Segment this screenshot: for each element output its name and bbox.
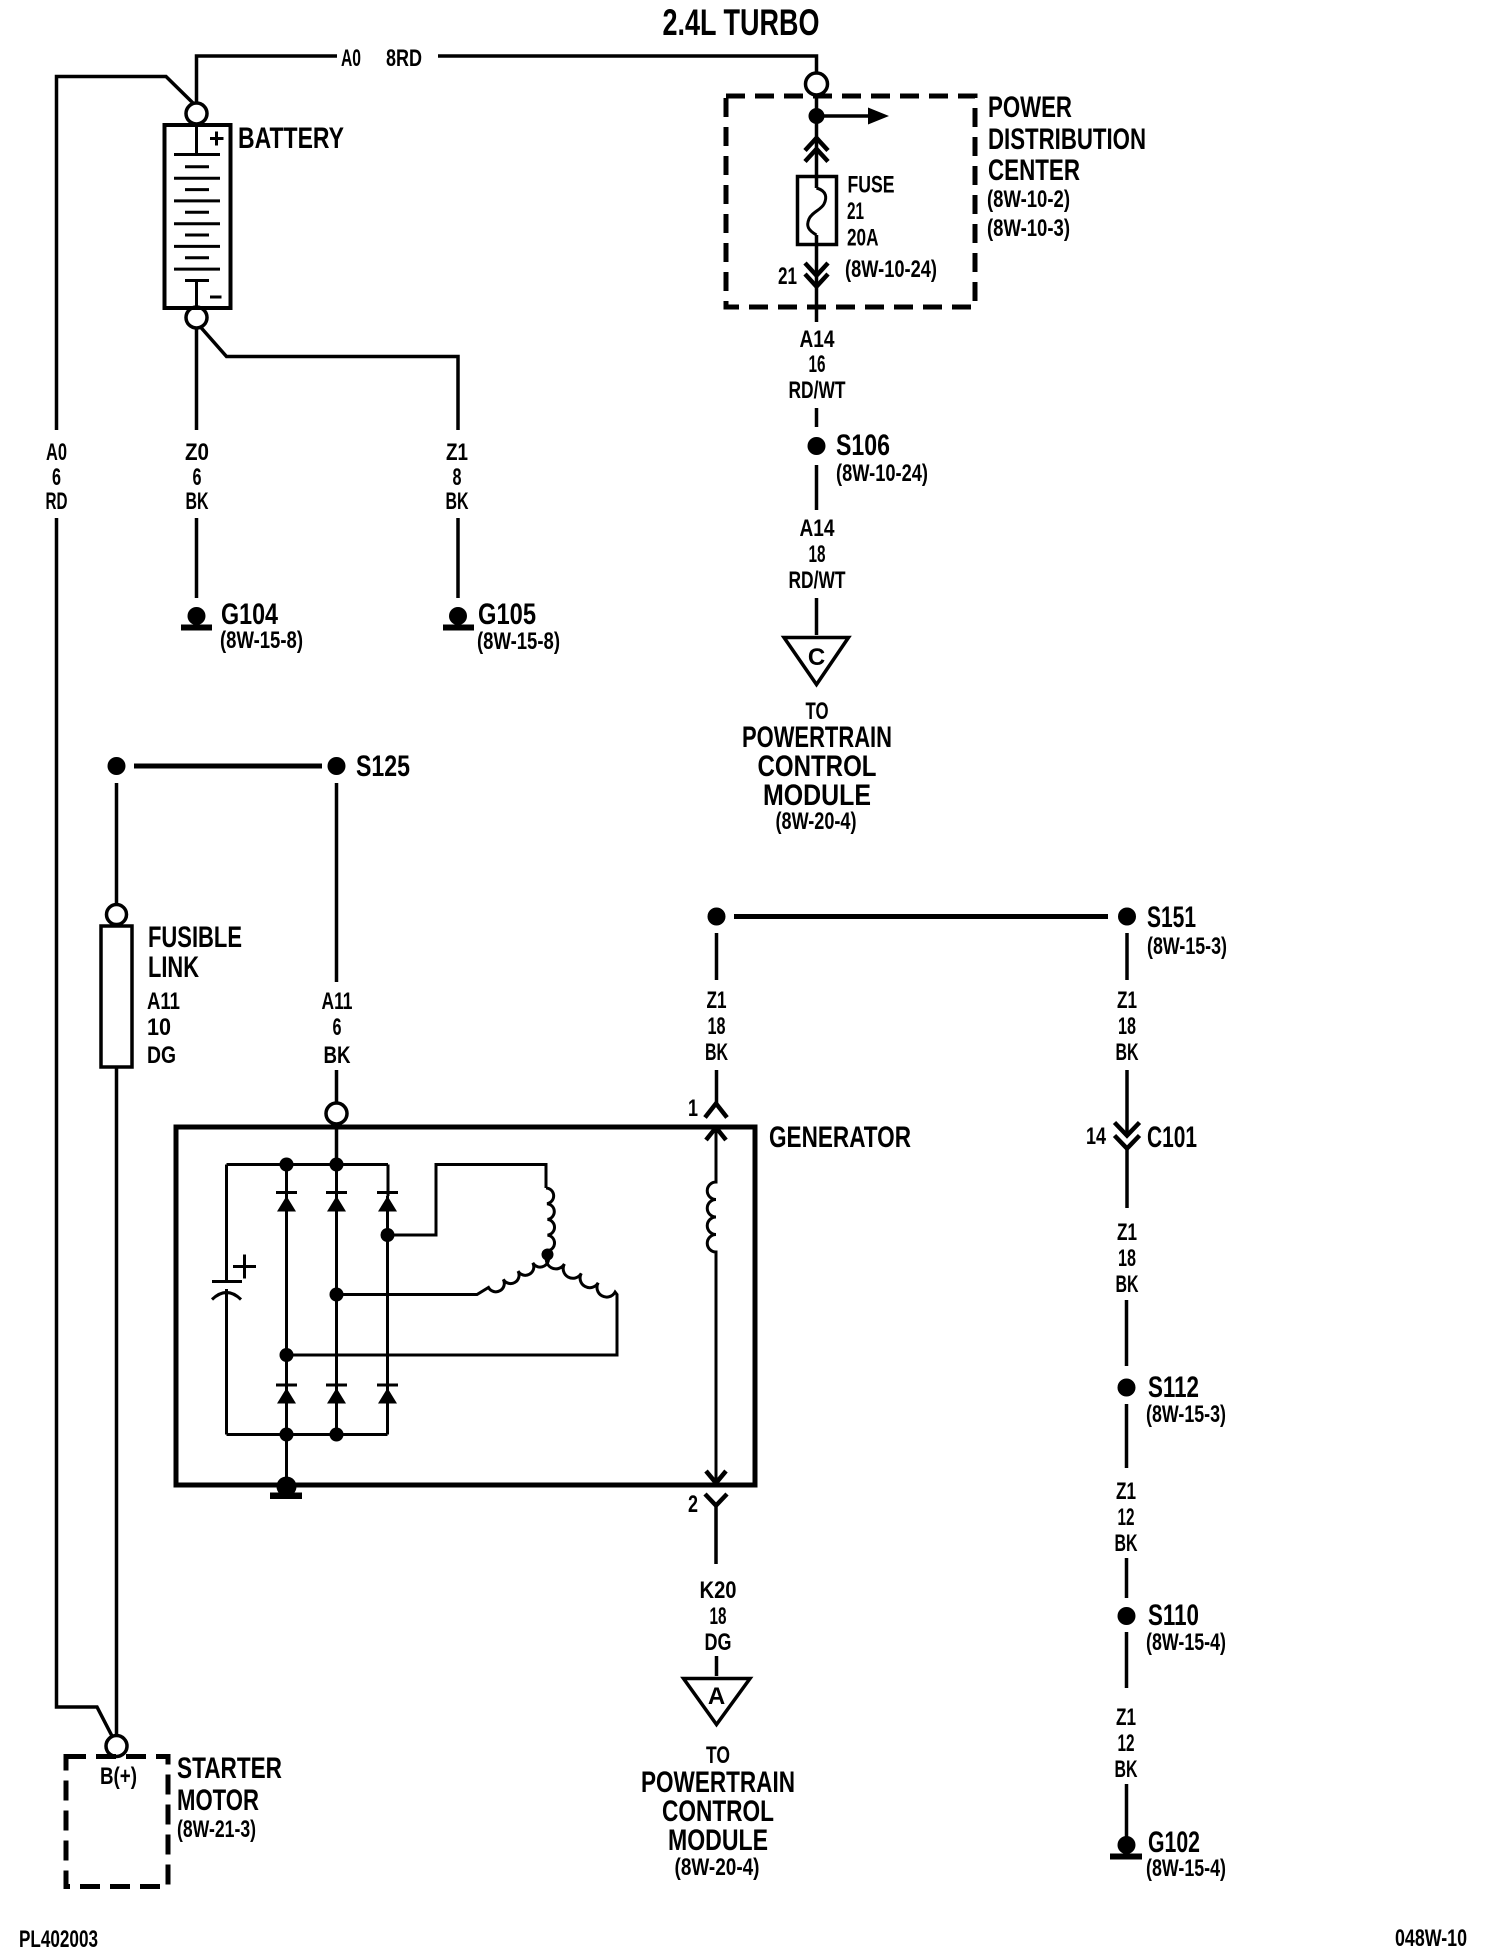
label A14 16 RD/WT (789, 326, 846, 404)
svg-text:048W-10: 048W-10 (1395, 1925, 1467, 1952)
svg-text:GENERATOR: GENERATOR (769, 1121, 911, 1154)
wire K20 18 DG (generator pin 2 to PCM) (714, 1506, 718, 1677)
svg-text:8RD: 8RD (386, 45, 422, 72)
svg-text:A0: A0 (341, 45, 361, 72)
svg-text:18: 18 (708, 1013, 726, 1040)
starter motor terminal B(+) (106, 1736, 127, 1757)
label POWER DISTRIBUTION CENTER (987, 91, 1146, 242)
splice S151 (1118, 901, 1227, 960)
svg-text:LINK: LINK (148, 951, 199, 984)
pin 21 label (778, 263, 797, 290)
diode 2 upper (326, 1165, 347, 1295)
svg-text:12: 12 (1118, 1730, 1135, 1757)
connector chevrons pin 21 (PDC output) (805, 263, 828, 287)
svg-text:6: 6 (52, 464, 61, 491)
sheet number 048W-10 (1395, 1925, 1467, 1952)
svg-text:8: 8 (453, 464, 462, 491)
connector chevrons (fuse cavity top) (805, 138, 828, 162)
svg-text:(8W-20-4): (8W-20-4) (675, 1854, 760, 1881)
junction dot bottom rail col1 (280, 1428, 294, 1442)
rotor field coil (707, 1128, 716, 1483)
svg-text:18: 18 (1118, 1245, 1136, 1272)
label TO POWERTRAIN CONTROL MODULE (top) (742, 698, 892, 835)
svg-text:6: 6 (193, 464, 202, 491)
label A11 6 BK (322, 988, 353, 1069)
stator winding phase B (down-left coil) (337, 1255, 549, 1295)
stator winding phase C (down-right coil) (287, 1255, 618, 1356)
sheet number PL402003 (19, 1926, 98, 1953)
svg-text:2.4L TURBO: 2.4L TURBO (663, 2, 820, 43)
svg-text:DG: DG (705, 1629, 732, 1656)
label STARTER MOTOR (177, 1752, 282, 1843)
svg-text:14: 14 (1086, 1123, 1106, 1150)
connector C101 pin 14 (1086, 1121, 1197, 1154)
generator case ground (270, 1477, 302, 1500)
label Z1 18 BK (right) (1116, 987, 1139, 1066)
svg-text:21: 21 (778, 263, 797, 290)
svg-text:10: 10 (147, 1014, 171, 1041)
label FUSIBLE LINK (148, 921, 242, 984)
svg-text:(8W-10-24): (8W-10-24) (845, 256, 937, 283)
wire Z1 18 BK (S151 to generator pin 1) (715, 933, 719, 1103)
title 2.4L TURBO (663, 2, 820, 43)
svg-text:(8W-21-3): (8W-21-3) (177, 1816, 256, 1843)
svg-text:BK: BK (324, 1042, 352, 1069)
svg-text:PL402003: PL402003 (19, 1926, 98, 1953)
svg-text:BK: BK (1116, 1271, 1139, 1298)
svg-text:(8W-15-3): (8W-15-3) (1146, 1401, 1226, 1428)
svg-text:2: 2 (688, 1491, 698, 1518)
svg-text:A0: A0 (46, 439, 67, 466)
splice S110 (1118, 1599, 1227, 1656)
wire diode3 to lower diode3 (386, 1235, 389, 1435)
svg-text:S151: S151 (1147, 901, 1196, 934)
splice S106 (808, 429, 929, 487)
wire to off-page connector C (815, 598, 819, 635)
junction dot stator phase A tap (381, 1228, 395, 1242)
junction dot bottom rail col2 (330, 1428, 344, 1442)
svg-text:A11: A11 (322, 988, 353, 1015)
junction dot S151 left (708, 908, 726, 926)
junction dot PDC (809, 108, 825, 124)
label TO POWERTRAIN CONTROL MODULE (bottom) (641, 1742, 795, 1881)
wire to generator case ground (285, 1435, 288, 1486)
splice S125 (328, 750, 411, 783)
svg-text:BATTERY: BATTERY (238, 122, 344, 155)
PDC input terminal (806, 73, 828, 95)
svg-text:(8W-15-8): (8W-15-8) (220, 627, 303, 654)
generator pin 2 arrow (inside box) (706, 1471, 726, 1483)
svg-text:Z1: Z1 (1117, 987, 1137, 1014)
battery positive terminal (186, 103, 207, 124)
svg-text:Z1: Z1 (446, 439, 468, 466)
svg-text:BK: BK (705, 1039, 728, 1066)
generator pin 1 arrow (inside box) (706, 1128, 726, 1141)
diode 3 upper (377, 1165, 398, 1236)
svg-text:STARTER: STARTER (177, 1752, 282, 1785)
wire A0 6 RD (left vertical from battery + terminal) (57, 77, 195, 1737)
svg-text:(8W-15-4): (8W-15-4) (1146, 1855, 1226, 1882)
label GENERATOR (769, 1121, 911, 1154)
junction dot phase B to diode 2 (330, 1288, 344, 1435)
svg-text:MODULE: MODULE (668, 1824, 768, 1857)
ground G105 (443, 598, 560, 655)
splice S125 bus (134, 764, 322, 769)
svg-text:S125: S125 (356, 750, 410, 783)
wire A14 16 RD/WT segment (815, 408, 819, 427)
fuse 21 20A (798, 177, 837, 245)
ground G104 (181, 598, 303, 654)
wire Z1 12 BK (S110 to G102) (1125, 1632, 1129, 1845)
stator neutral junction dot (542, 1249, 554, 1261)
svg-text:Z1: Z1 (1117, 1219, 1137, 1246)
svg-text:18: 18 (710, 1603, 727, 1630)
svg-text:A14: A14 (800, 515, 836, 542)
junction dot S125 left (108, 757, 126, 775)
svg-text:TO: TO (706, 1742, 730, 1769)
off-page connector A triangle (684, 1679, 751, 1725)
label A14 18 RD/WT (789, 515, 846, 594)
svg-text:S112: S112 (1148, 1371, 1199, 1404)
label FUSE 21 20A (845, 172, 937, 284)
stator phase A lead (388, 1165, 547, 1236)
diode 2 lower (326, 1385, 347, 1404)
off-page connector C triangle (784, 638, 849, 685)
svg-text:DG: DG (147, 1042, 176, 1069)
starter motor box (66, 1757, 168, 1887)
wire Z1 8 BK (battery - to G105) (201, 327, 459, 598)
wire A11 6 BK (S125 to generator) (335, 783, 339, 1102)
battery (165, 125, 231, 308)
svg-text:BK: BK (1115, 1530, 1138, 1557)
svg-text:(8W-10-3): (8W-10-3) (987, 215, 1070, 242)
arrow feed to other circuits (824, 108, 889, 125)
svg-text:POWER: POWER (988, 91, 1072, 124)
power distribution center box (726, 96, 975, 307)
junction dot top rail col1 (280, 1158, 294, 1172)
generator pin 2 (688, 1491, 727, 1518)
wire Z1 18 BK (S151 to C101) (1125, 933, 1129, 1134)
svg-text:RD/WT: RD/WT (789, 567, 846, 594)
svg-text:DISTRIBUTION: DISTRIBUTION (988, 123, 1146, 156)
fusible link terminal (107, 905, 127, 925)
label K20 18 DG (700, 1577, 737, 1656)
svg-text:BK: BK (446, 488, 469, 515)
stator winding phase A (vertical coil) (546, 1188, 555, 1251)
svg-text:A: A (708, 1683, 725, 1710)
label BATTERY (238, 122, 344, 155)
svg-text:(8W-15-4): (8W-15-4) (1146, 1629, 1226, 1656)
svg-text:Z1: Z1 (1116, 1478, 1136, 1505)
wire Z0 6 BK (battery - to G104) (195, 330, 199, 599)
svg-text:CENTER: CENTER (988, 154, 1080, 187)
svg-text:(8W-20-4): (8W-20-4) (776, 808, 857, 835)
svg-text:6: 6 (333, 1014, 342, 1041)
splice S112 (1118, 1371, 1227, 1428)
label Z1 12 BK (1115, 1478, 1138, 1557)
wire inside PDC (terminal to fuse) (815, 95, 819, 188)
svg-text:A14: A14 (800, 326, 836, 353)
wire A11 10 DG (fusible link to starter) (115, 1067, 119, 1735)
svg-text:1: 1 (688, 1095, 698, 1122)
wire generator input to rail (335, 1124, 339, 1165)
svg-text:FUSE: FUSE (848, 172, 895, 199)
fusible link (101, 926, 132, 1067)
label Z1 8 BK (446, 439, 469, 515)
ground G102 (1110, 1826, 1226, 1882)
svg-text:20A: 20A (847, 225, 879, 252)
label A11 10 DG (147, 988, 180, 1069)
junction dot top rail col2 (330, 1158, 344, 1172)
label Z1 18 BK (generator) (705, 987, 728, 1066)
svg-text:K20: K20 (700, 1577, 737, 1604)
label A0 8RD (341, 45, 422, 72)
wire Z1 18 BK (C101 to S112) (1125, 1149, 1129, 1367)
svg-text:Z1: Z1 (707, 987, 727, 1014)
svg-text:Z1: Z1 (1116, 1704, 1136, 1731)
svg-text:A11: A11 (147, 988, 180, 1015)
capacitor (suppression) (212, 1255, 256, 1300)
rectifier top rail (227, 1163, 389, 1166)
diode 1 upper (276, 1165, 297, 1356)
label A0 6 RD (46, 439, 68, 515)
svg-text:(8W-15-8): (8W-15-8) (477, 628, 560, 655)
svg-text:16: 16 (809, 351, 826, 378)
label Z1 18 BK (below C101) (1116, 1219, 1139, 1298)
svg-text:(8W-15-3): (8W-15-3) (1147, 933, 1227, 960)
svg-text:S110: S110 (1148, 1599, 1199, 1632)
svg-text:MOTOR: MOTOR (177, 1784, 259, 1817)
svg-text:BK: BK (186, 488, 209, 515)
wire S125 to fusible link (115, 783, 119, 905)
capacitor branch wire (225, 1165, 228, 1435)
svg-text:BK: BK (1116, 1039, 1139, 1066)
wire fuse output (815, 235, 819, 322)
label Z1 12 BK (lower) (1115, 1704, 1138, 1783)
svg-text:B(+): B(+) (100, 1763, 137, 1790)
svg-text:S106: S106 (836, 429, 890, 462)
svg-text:G105: G105 (478, 598, 536, 631)
svg-text:C101: C101 (1147, 1121, 1197, 1154)
wire A0 8RD (battery + to PDC, horizontal top) (197, 56, 817, 103)
svg-text:C: C (808, 644, 825, 671)
wire Z1 12 BK (S112 to S110) (1125, 1404, 1129, 1598)
diode 3 lower (377, 1385, 398, 1404)
svg-text:12: 12 (1118, 1504, 1135, 1531)
svg-text:RD: RD (46, 488, 68, 515)
generator pin 1 (688, 1095, 727, 1122)
wire A14 18 RD/WT (815, 465, 819, 510)
battery negative terminal (186, 307, 207, 328)
svg-text:(8W-10-24): (8W-10-24) (836, 460, 928, 487)
svg-text:(8W-10-2): (8W-10-2) (987, 186, 1070, 213)
svg-text:RD/WT: RD/WT (789, 377, 846, 404)
generator B+ terminal (326, 1103, 347, 1124)
svg-text:FUSIBLE: FUSIBLE (148, 921, 242, 954)
svg-text:BK: BK (1115, 1756, 1138, 1783)
svg-text:21: 21 (847, 198, 864, 225)
svg-text:18: 18 (809, 541, 826, 568)
generator box (176, 1127, 755, 1485)
svg-text:18: 18 (1118, 1013, 1136, 1040)
svg-text:Z0: Z0 (185, 439, 209, 466)
rectifier bottom rail (227, 1433, 388, 1436)
junction dot phase C to diode 1 (280, 1348, 294, 1435)
diode 1 lower (276, 1385, 297, 1404)
splice S151 bus (734, 914, 1108, 919)
label Z0 6 BK (185, 439, 209, 515)
